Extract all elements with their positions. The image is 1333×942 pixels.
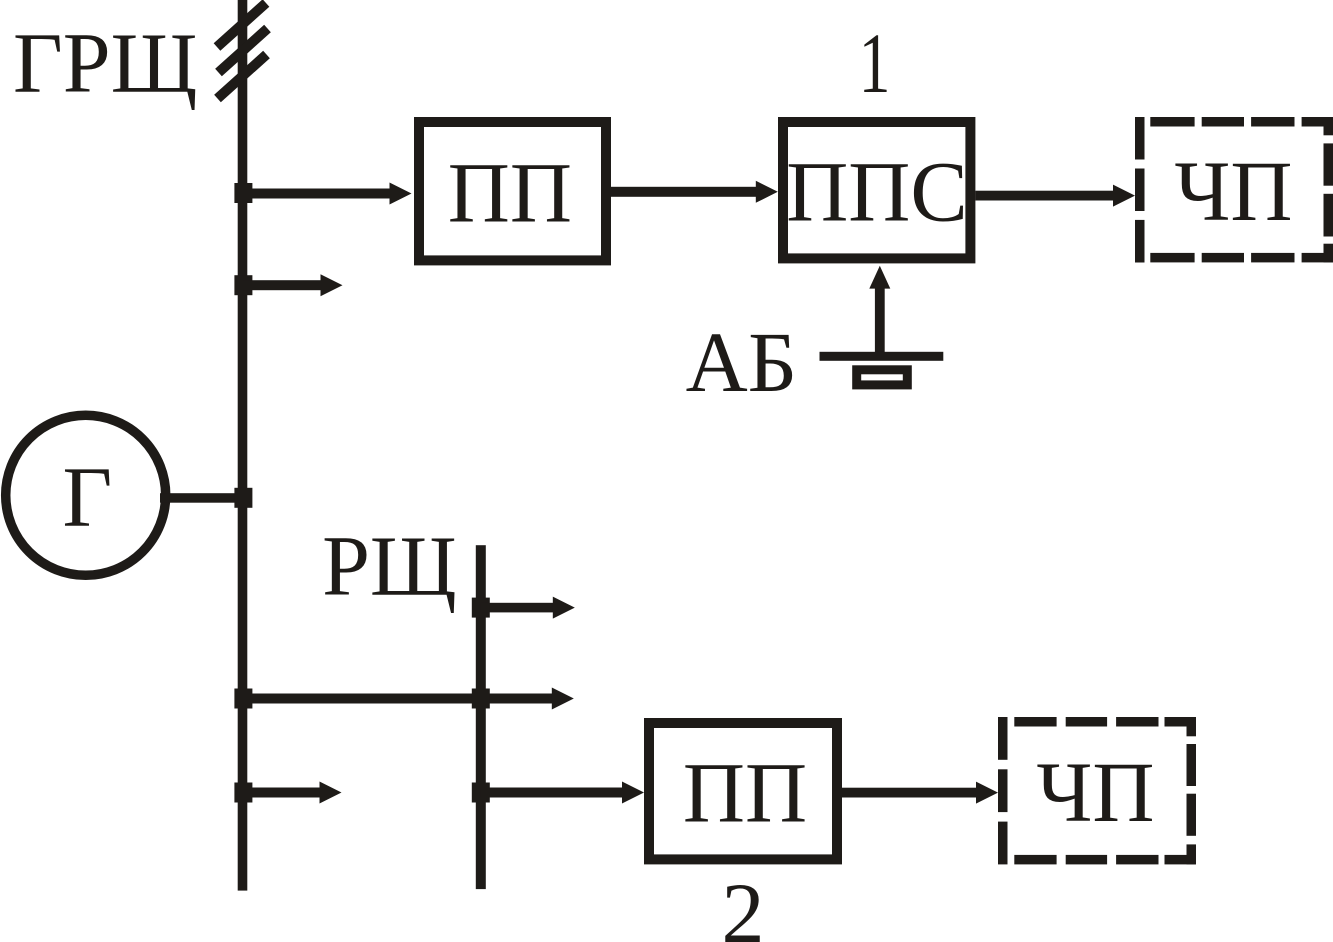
arrowhead into ПП 2 bbox=[622, 782, 644, 804]
wire ПП 2 to ЧП 2 bbox=[842, 788, 977, 798]
node junction J1 on main bus bbox=[234, 183, 252, 203]
svg-text:ППС: ППС bbox=[786, 144, 968, 240]
box ЧП 2 right column bbox=[1187, 717, 1197, 736]
box ЧП 1 (frequency converter, dashed) left column bbox=[1135, 117, 1145, 160]
box ЧП 1 top row bbox=[1150, 117, 1194, 127]
hatch slash 3 bbox=[218, 55, 267, 99]
wire feeder to ПП 1 bbox=[243, 189, 391, 199]
box ЧП 1 bottom row bbox=[1150, 253, 1194, 263]
wire stub feeder bbox=[243, 280, 322, 290]
node junction K1 on РЩ bus bbox=[472, 598, 490, 618]
arrowhead stub feeder bbox=[321, 274, 343, 296]
svg-text:2: 2 bbox=[722, 865, 765, 942]
hatch slash 1 (bus break marks) bbox=[217, 3, 266, 47]
arrowhead up into ППС bbox=[869, 266, 890, 289]
svg-text:ГРЩ: ГРЩ bbox=[13, 14, 197, 110]
generator Г circle bbox=[6, 415, 166, 575]
box ППС (static converter) bbox=[783, 122, 970, 258]
bus ГРЩ (main switchboard busbar) bbox=[238, 0, 248, 891]
wire main bus to РЩ bus bbox=[243, 694, 553, 704]
wire battery to ППС (vertical) bbox=[875, 288, 885, 356]
node junction K3 on РЩ bus bbox=[472, 783, 490, 803]
wire feeder from РЩ bbox=[481, 603, 554, 613]
box ЧП 2 bottom row bbox=[1014, 855, 1056, 865]
svg-text:ПП: ПП bbox=[448, 145, 572, 241]
wire ППС to ЧП 1 bbox=[975, 191, 1114, 201]
arrowhead into ЧП 1 bbox=[1113, 185, 1135, 207]
svg-text:Г: Г bbox=[62, 448, 112, 544]
svg-text:ПП: ПП bbox=[683, 745, 807, 841]
box ПП 1 (semiconductor converter) bbox=[419, 122, 606, 260]
node junction J2 on main bus bbox=[234, 275, 252, 295]
box ЧП 2 (frequency converter, dashed) left column bbox=[998, 717, 1008, 760]
hatch slash 2 bbox=[219, 29, 268, 73]
box ПП 2 (semiconductor converter) bbox=[649, 723, 837, 859]
arrowhead past РЩ bbox=[552, 688, 574, 710]
wire generator to bus bbox=[160, 493, 243, 503]
box ЧП 1 right column bbox=[1324, 117, 1333, 135]
wire stub feeder lower bbox=[243, 788, 321, 798]
wire ПП 1 to ППС bbox=[611, 187, 757, 197]
svg-text:1: 1 bbox=[859, 17, 891, 111]
box ЧП 2 top row bbox=[1014, 717, 1056, 727]
arrowhead stub feeder lower bbox=[320, 782, 342, 804]
battery АБ cell box bbox=[857, 370, 908, 385]
svg-text:РЩ: РЩ bbox=[322, 518, 457, 614]
node junction K2 on РЩ bus bbox=[472, 689, 490, 709]
svg-text:ЧП: ЧП bbox=[1175, 143, 1293, 239]
wire РЩ to ПП 2 bbox=[481, 788, 623, 798]
arrowhead feeder from РЩ bbox=[553, 597, 575, 619]
svg-text:ЧП: ЧП bbox=[1037, 744, 1155, 840]
node junction J3 generator tap bbox=[234, 488, 252, 508]
arrowhead into ЧП 2 bbox=[976, 782, 998, 804]
node junction J5 on main bus bbox=[234, 783, 252, 803]
arrowhead into ППС bbox=[756, 181, 778, 203]
svg-text:АБ: АБ bbox=[686, 314, 798, 410]
bus РЩ (secondary switchboard busbar) bbox=[476, 545, 486, 889]
arrowhead into ПП 1 bbox=[390, 183, 412, 205]
battery АБ bar bbox=[820, 352, 944, 361]
node junction J4 on main bus bbox=[234, 689, 252, 709]
